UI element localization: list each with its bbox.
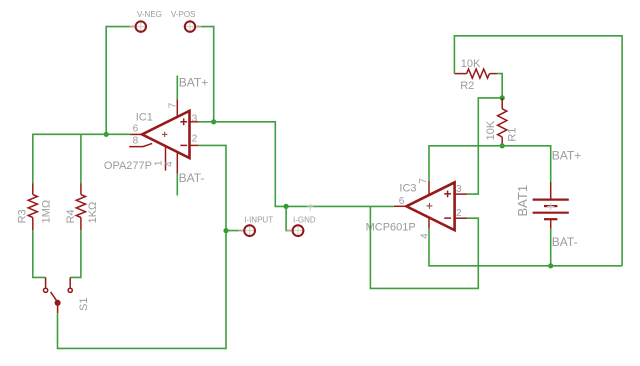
svg-text:2: 2 [456,208,462,219]
svg-text:7: 7 [418,178,429,184]
svg-text:IC1: IC1 [136,112,153,124]
svg-text:10K: 10K [461,58,481,70]
wire IC3 feedback loop [370,206,478,288]
svg-text:4: 4 [164,161,175,167]
svg-text:1KΩ: 1KΩ [87,202,99,224]
wire IC1 pin 7 BAT+ stub [176,76,178,100]
svg-text:V-NEG: V-NEG [137,10,162,19]
node G junction [548,263,553,268]
wire node D to I-INPUT pad [226,230,244,232]
node B junction [211,119,216,124]
wire R4 to switch contact [70,230,81,277]
wire branch to R4 [80,134,82,183]
svg-text:8: 8 [133,136,139,147]
switch S1 [44,277,73,313]
pad V-POS [183,20,201,34]
svg-text:7: 7 [167,102,178,108]
resistor R1 [498,98,507,146]
battery BAT1 [533,182,569,229]
svg-text:R4: R4 [65,209,77,223]
svg-text:R1: R1 [507,128,519,142]
svg-text:V-POS: V-POS [171,10,195,19]
svg-text:R3: R3 [16,209,28,223]
svg-text:BAT+: BAT+ [552,148,581,162]
wire node A to IC1 pin 6 [106,133,130,135]
wire node C to I-GND pad [286,206,293,230]
origin cross BAT1 [547,203,554,210]
pad I-GND [287,224,305,238]
origin cross IC3 [426,203,432,209]
svg-text:3: 3 [192,113,198,124]
svg-text:MCP601P: MCP601P [366,222,416,234]
svg-text:IC3: IC3 [399,183,416,195]
svg-text:I-GND: I-GND [293,215,316,224]
wire node A to R3 and R4 [33,134,106,183]
wire R2 to node E [497,74,502,98]
pad V-NEG [130,20,148,34]
node C junction [284,204,289,209]
svg-text:10K: 10K [485,120,497,140]
node A junction [104,132,109,137]
pad I-INPUT [238,224,256,238]
op-amp IC3 [394,181,467,230]
svg-text:R2: R2 [460,80,474,92]
svg-text:6: 6 [133,124,139,135]
wire R3 to switch contact [33,230,46,277]
svg-text:BAT1: BAT1 [515,185,530,217]
wire IC3 pin3 to node E [467,98,502,194]
svg-text:6: 6 [399,196,405,207]
svg-text:3: 3 [456,184,462,195]
wire IC1 pin 4 BAT- stub [176,174,178,196]
svg-text:OPA277P: OPA277P [104,160,152,172]
wire V-POS to node B [195,27,214,122]
svg-text:2: 2 [192,133,198,144]
resistor R4 [76,183,85,230]
svg-text:1: 1 [153,160,164,166]
wire IC1 pin3 to IC3 output [198,122,286,207]
resistor R3 [28,183,37,230]
node E junction [500,95,505,100]
svg-text:1MΩ: 1MΩ [40,200,52,224]
wire V-NEG to node A [106,27,135,135]
svg-text:BAT-: BAT- [552,235,578,249]
svg-text:S1: S1 [78,298,90,311]
wire top loop R2 to right rail [454,36,622,266]
node F junction [500,143,505,148]
wire IC1 pin2 feedback to switch [58,145,227,348]
origin cross net [307,203,314,210]
node D junction [223,228,228,233]
wire battery bottom [550,229,552,266]
wire BAT- rail [429,229,622,266]
svg-text:BAT+: BAT+ [179,76,208,90]
op-amp IC1 [129,100,198,174]
origin cross IC1 [162,132,167,137]
svg-text:BAT-: BAT- [179,171,205,185]
resistor R2 [454,69,497,78]
wire node C to IC3 pin 6 [286,205,394,207]
svg-text:I-INPUT: I-INPUT [244,215,273,224]
wire BAT+ rail [429,146,551,182]
